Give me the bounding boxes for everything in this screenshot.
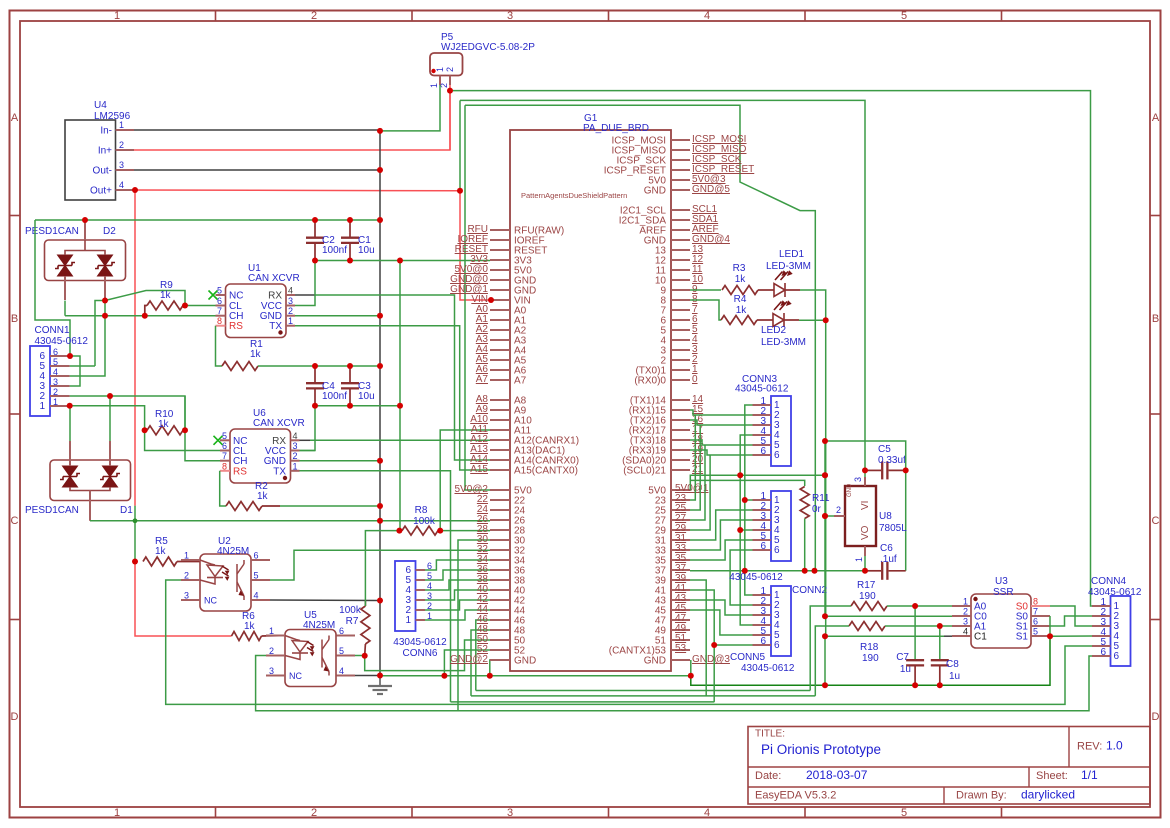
wire red to R6 xyxy=(135,562,232,637)
svg-text:LED-3MM: LED-3MM xyxy=(761,337,806,348)
CONN6 fan wires to G1 xyxy=(425,560,490,570)
svg-text:5: 5 xyxy=(217,286,222,296)
svg-text:1k: 1k xyxy=(160,290,172,301)
svg-text:43045-0612: 43045-0612 xyxy=(729,572,783,583)
svg-text:3: 3 xyxy=(293,441,298,451)
svg-text:B: B xyxy=(11,313,18,325)
svg-text:TITLE:: TITLE: xyxy=(755,729,785,740)
svg-text:REV:: REV: xyxy=(1077,741,1102,753)
wire U6 GND to black xyxy=(300,460,381,462)
voltage regulator U8 7805L xyxy=(845,486,876,546)
3V3 vertical x400 xyxy=(399,261,401,406)
wire U1 RS down to R1 xyxy=(216,326,223,366)
wire GND@3 leg xyxy=(690,660,692,676)
wire CONN2.5 to G1.35 xyxy=(690,540,753,560)
svg-text:100nf: 100nf xyxy=(322,245,347,256)
svg-text:4N25M: 4N25M xyxy=(303,620,335,631)
GND vertical black x380 xyxy=(379,130,381,676)
wire R17 from bus riser xyxy=(810,606,851,691)
svg-text:.1uf: .1uf xyxy=(880,554,897,565)
svg-text:GND@2: GND@2 xyxy=(450,654,488,665)
wire U1 VCC riser xyxy=(295,261,315,306)
svg-text:LED-3MM: LED-3MM xyxy=(766,261,811,272)
svg-text:(RX0)0: (RX0)0 xyxy=(634,376,666,387)
D1 top pins xyxy=(69,441,71,466)
GND bus y675.8 xyxy=(380,675,691,677)
connector CONN6 43045-0612 xyxy=(395,561,416,631)
svg-text:C6: C6 xyxy=(880,543,893,554)
svg-text:3: 3 xyxy=(53,377,58,387)
svg-text:1/1: 1/1 xyxy=(1081,768,1098,782)
svg-text:2: 2 xyxy=(963,607,968,617)
wire R17 to U3.A0 xyxy=(887,605,952,607)
resistor R9 1k xyxy=(147,301,183,310)
wire U3.C0 from LED net xyxy=(825,615,952,617)
svg-text:D1: D1 xyxy=(120,505,133,516)
svg-text:darylicked: darylicked xyxy=(1021,788,1075,802)
svg-text:C8: C8 xyxy=(946,659,959,670)
top loop bus 3 to diagonal (green) xyxy=(465,105,815,571)
svg-text:7: 7 xyxy=(217,306,222,316)
svg-text:0r: 0r xyxy=(812,504,822,515)
svg-text:4: 4 xyxy=(53,367,58,377)
svg-text:GND@5: GND@5 xyxy=(692,184,730,195)
resistor R11 0r (vertical) xyxy=(800,487,809,519)
svg-text:In-: In- xyxy=(100,126,112,137)
svg-text:D: D xyxy=(11,711,19,723)
svg-text:1.0: 1.0 xyxy=(1106,739,1123,753)
svg-text:5: 5 xyxy=(339,646,344,656)
wire G1.18 to CONN3.5 to G1.27 xyxy=(690,440,753,445)
svg-text:4: 4 xyxy=(119,180,124,190)
x825 5V net vertical xyxy=(824,441,826,616)
svg-text:LED2: LED2 xyxy=(761,325,786,336)
3V3 rail y260.5 (green) xyxy=(315,260,490,262)
optocoupler U2 4N25M xyxy=(200,554,251,611)
shield G1 PA_DUE_BRD xyxy=(510,130,671,671)
svg-text:190: 190 xyxy=(862,653,879,664)
svg-text:100nf: 100nf xyxy=(322,391,347,402)
svg-text:1: 1 xyxy=(53,397,58,407)
wire CONN1.5 (green) xyxy=(70,365,95,367)
svg-text:1k: 1k xyxy=(250,349,262,360)
svg-text:1: 1 xyxy=(854,557,864,562)
wire CONN2.3 to G1.33 xyxy=(690,520,753,550)
svg-text:(SCL0)21: (SCL0)21 xyxy=(623,466,666,477)
svg-text:R11: R11 xyxy=(812,493,830,504)
resistor R6 1k xyxy=(232,632,262,641)
svg-text:EasyEDA V5.3.2: EasyEDA V5.3.2 xyxy=(755,790,836,802)
svg-text:5: 5 xyxy=(53,357,58,367)
svg-text:1: 1 xyxy=(288,316,293,326)
svg-text:6: 6 xyxy=(774,640,780,651)
svg-text:53: 53 xyxy=(675,643,687,654)
svg-text:A15(CANTX0): A15(CANTX0) xyxy=(514,466,578,477)
ground xyxy=(379,676,381,687)
wire R6 to U5.1 xyxy=(262,635,286,638)
capacitor C3 10u xyxy=(349,366,351,383)
R9 left elbow xyxy=(145,306,147,316)
resistor R8 100k xyxy=(402,526,438,535)
wire riser x460 (green) xyxy=(459,100,461,190)
svg-text:CONN6: CONN6 xyxy=(402,648,437,659)
wire Out+ (red) xyxy=(134,189,460,192)
svg-text:7: 7 xyxy=(222,451,227,461)
svg-text:TX: TX xyxy=(273,466,286,477)
svg-text:2: 2 xyxy=(311,807,317,819)
wire In- to GND vertical (black) xyxy=(134,129,380,131)
wire G1.30 drop xyxy=(458,540,490,711)
no-connect X on U6 pin5 xyxy=(214,436,223,445)
svg-text:8: 8 xyxy=(222,461,227,471)
resistor R4 1k xyxy=(721,316,757,325)
svg-text:C: C xyxy=(11,515,19,527)
connector CONN2 43045-0612 xyxy=(771,491,791,561)
svg-text:5: 5 xyxy=(901,10,907,22)
svg-text:2: 2 xyxy=(53,387,58,397)
wire G1.15 to CONN3.2 to G1.23 xyxy=(690,410,753,415)
svg-text:U3: U3 xyxy=(995,576,1008,587)
capacitor C7 1u (vertical) xyxy=(914,606,916,661)
bus riser to 5V0@2 (green) xyxy=(465,105,490,490)
svg-text:A: A xyxy=(1152,112,1160,124)
svg-text:3: 3 xyxy=(119,160,124,170)
svg-text:4: 4 xyxy=(963,627,968,637)
svg-text:2: 2 xyxy=(836,505,841,515)
svg-text:1: 1 xyxy=(435,67,445,72)
wire U6 RS down to R2 xyxy=(220,471,226,506)
wire LED1 out xyxy=(785,289,800,291)
wire R2 right xyxy=(262,505,280,507)
rail 37 / R11 / U8 out xyxy=(690,570,865,572)
svg-text:43045-0612: 43045-0612 xyxy=(1088,587,1142,598)
svg-text:1u: 1u xyxy=(949,671,960,682)
svg-text:CONN4: CONN4 xyxy=(1091,576,1126,587)
svg-text:0: 0 xyxy=(692,374,698,385)
svg-text:D: D xyxy=(1152,711,1160,723)
wire Out+ down left branch (red) xyxy=(134,190,136,506)
relay U3 SSR xyxy=(971,594,1031,648)
U8 pin2 stub xyxy=(834,515,845,517)
wire U6 TX down to bus xyxy=(300,471,451,702)
bus y701.9 from U6 TX xyxy=(451,701,715,703)
svg-text:100k: 100k xyxy=(339,605,362,616)
svg-text:4: 4 xyxy=(704,807,710,819)
wire Out- (black) xyxy=(134,169,380,171)
wire U5.4 black to GND xyxy=(355,675,380,677)
svg-text:GND: GND xyxy=(644,186,666,197)
resistor R5 1k xyxy=(143,557,177,566)
capacitor C6 .1uf xyxy=(865,570,881,572)
svg-text:R17: R17 xyxy=(857,580,876,591)
svg-text:1: 1 xyxy=(293,461,298,471)
wire R5 to U2.1 xyxy=(177,561,200,563)
5V0@1 rail xyxy=(690,475,825,490)
junction dots overlay xyxy=(132,187,138,193)
GND rail y520.8 (green) xyxy=(90,520,490,522)
wire G1.52 drop xyxy=(444,650,490,676)
top loop bus 2 to U8 VI (green) xyxy=(460,100,865,470)
svg-text:S1: S1 xyxy=(1016,632,1029,643)
svg-text:VI: VI xyxy=(860,501,871,510)
top loop bus VIN (green) xyxy=(450,91,1093,606)
svg-text:3: 3 xyxy=(288,296,293,306)
wire CONN1.2 to CH net xyxy=(70,396,220,461)
svg-text:1k: 1k xyxy=(155,546,167,557)
svg-text:LED1: LED1 xyxy=(779,249,804,260)
svg-text:3: 3 xyxy=(853,477,863,482)
resistor R10 1k xyxy=(147,426,183,435)
svg-text:Pi Orionis Prototype: Pi Orionis Prototype xyxy=(761,742,881,757)
svg-text:2: 2 xyxy=(269,646,274,656)
svg-text:1k: 1k xyxy=(158,419,170,430)
CANL rail y315.7 (green) xyxy=(65,315,216,317)
wire U3.C1 row xyxy=(824,636,826,685)
svg-text:WJ2EDGVC-5.08-2P: WJ2EDGVC-5.08-2P xyxy=(441,42,535,53)
transceiver U1 CAN XCVR xyxy=(226,284,287,338)
svg-text:5: 5 xyxy=(254,571,259,581)
wire G1.45 to CONN5.5 xyxy=(690,610,753,635)
wire G1.19 to CONN3.6 to G1.29 xyxy=(690,450,753,455)
svg-text:GND: GND xyxy=(847,483,853,497)
wire R18 from bus riser xyxy=(815,626,849,696)
svg-text:5: 5 xyxy=(901,807,907,819)
svg-text:6: 6 xyxy=(774,545,780,556)
dark green bus y685.2 xyxy=(691,636,1050,685)
wire bus to CONN5.6 riser xyxy=(713,645,715,702)
svg-text:NC: NC xyxy=(229,291,243,302)
wire U3.7 to junction xyxy=(1049,616,1051,636)
svg-text:LM2596: LM2596 xyxy=(94,111,131,122)
wire CONN1.4 (green) xyxy=(70,316,105,376)
svg-text:PatternAgentsDueShieldPattern: PatternAgentsDueShieldPattern xyxy=(521,191,627,200)
wire U3.8 to CONN4.3 xyxy=(1050,606,1092,626)
wire D2 right pin junctions xyxy=(104,301,106,316)
svg-text:0.33uf: 0.33uf xyxy=(878,455,906,466)
svg-text:2: 2 xyxy=(184,571,189,581)
svg-text:1k: 1k xyxy=(244,621,256,632)
resistor R2 1k xyxy=(226,502,262,511)
wire to D1 right pin xyxy=(109,396,111,441)
svg-text:6: 6 xyxy=(217,296,222,306)
wire pin9 to R3 xyxy=(690,289,721,291)
wire CONN3.4 / 5V0 rail / CONN2.4 / CONN5.4 xyxy=(740,435,752,625)
svg-text:1: 1 xyxy=(39,401,45,412)
svg-text:2: 2 xyxy=(445,67,455,72)
TVS array D2 PESD1CAN xyxy=(45,240,126,281)
wire x906 down xyxy=(905,470,907,570)
svg-text:6: 6 xyxy=(339,626,344,636)
svg-text:NC: NC xyxy=(204,596,217,606)
svg-text:1: 1 xyxy=(429,83,439,88)
svg-text:43045-0612: 43045-0612 xyxy=(741,663,795,674)
GND rail y220 (green) xyxy=(35,219,380,221)
svg-text:NC: NC xyxy=(289,671,302,681)
svg-text:1: 1 xyxy=(405,615,411,626)
wire R18 to U3.A1 xyxy=(885,625,952,627)
resistor R7 100k (vertical) xyxy=(361,606,370,644)
D1 center pin to GND rail xyxy=(89,491,91,521)
svg-text:6: 6 xyxy=(774,450,780,461)
svg-text:100k: 100k xyxy=(413,516,436,527)
capacitor C1 10u xyxy=(349,220,351,238)
resistor R3 1k xyxy=(722,286,758,295)
svg-text:In+: In+ xyxy=(98,146,112,157)
resistor R1 1k xyxy=(222,362,258,371)
diagonal wire D2 to R9 right (green) xyxy=(105,291,185,306)
svg-text:R3: R3 xyxy=(733,263,746,274)
wire C5 right down to C6 xyxy=(825,441,906,470)
svg-text:PA_DUE_BRD: PA_DUE_BRD xyxy=(583,123,649,134)
U8 pin1 stub xyxy=(864,546,866,556)
svg-text:C1: C1 xyxy=(974,632,987,643)
no-connect X on U1 pin5 xyxy=(209,291,218,300)
connector CONN3 43045-0612 xyxy=(771,396,791,466)
svg-text:3: 3 xyxy=(184,591,189,601)
wire U6 VCC xyxy=(300,450,316,452)
svg-text:GND: GND xyxy=(644,656,666,667)
svg-text:D2: D2 xyxy=(103,226,116,237)
svg-text:CONN2: CONN2 xyxy=(792,585,827,596)
U6 VCC riser x315 xyxy=(295,406,315,451)
wire U2.2 to bottom bus xyxy=(166,580,1092,704)
svg-text:R18: R18 xyxy=(860,642,879,653)
svg-text:10u: 10u xyxy=(358,391,375,402)
svg-text:A7: A7 xyxy=(476,374,489,385)
svg-text:VO: VO xyxy=(860,525,871,540)
wire U1 GND to black xyxy=(295,315,380,317)
svg-text:3: 3 xyxy=(507,807,513,819)
svg-text:3: 3 xyxy=(963,617,968,627)
svg-text:4: 4 xyxy=(704,10,710,22)
svg-text:GND: GND xyxy=(514,656,536,667)
svg-text:CONN1: CONN1 xyxy=(35,325,70,336)
svg-text:43045-0612: 43045-0612 xyxy=(35,336,89,347)
wire D1 left pin up to CONN1.1 xyxy=(69,406,71,441)
svg-text:Out+: Out+ xyxy=(90,186,112,197)
LED2 LED-3MM xyxy=(757,319,773,321)
transceiver U6 CAN XCVR xyxy=(230,429,291,483)
wire U3.5 / CONN4.4 xyxy=(1050,635,1092,637)
wire LED2 out xyxy=(784,319,799,321)
capacitor C8 1u (vertical) xyxy=(939,626,941,661)
svg-text:6: 6 xyxy=(53,347,58,357)
svg-text:1: 1 xyxy=(114,10,120,22)
resistor R18 190 xyxy=(849,622,885,631)
svg-text:1: 1 xyxy=(119,120,124,130)
wire CONN2.2 to G1.31 xyxy=(690,510,753,540)
connector CONN1 43045-0612 xyxy=(30,346,50,416)
wire R8 left to R7 riser xyxy=(365,531,399,606)
svg-text:7805L: 7805L xyxy=(879,523,907,534)
left vertical to CONN1.6 (green) xyxy=(35,220,70,356)
LED net vertical x825.7 xyxy=(825,320,827,636)
capacitor C5 0.33uf xyxy=(865,469,881,471)
svg-text:1: 1 xyxy=(114,807,120,819)
wire U1 RX to A14 riser xyxy=(295,294,315,296)
wire GND@2 leg xyxy=(489,660,491,676)
svg-text:R8: R8 xyxy=(415,505,428,516)
svg-text:2: 2 xyxy=(288,306,293,316)
svg-text:Sheet:: Sheet: xyxy=(1036,770,1068,782)
svg-text:2: 2 xyxy=(119,140,124,150)
svg-text:6: 6 xyxy=(760,636,766,647)
connector CONN4 43045-0612 xyxy=(1111,596,1131,666)
svg-text:6: 6 xyxy=(760,446,766,457)
wire U2.4 black to GND xyxy=(270,599,380,602)
svg-text:CAN XCVR: CAN XCVR xyxy=(248,273,300,284)
svg-text:R4: R4 xyxy=(734,294,747,305)
svg-text:8: 8 xyxy=(1033,597,1038,607)
svg-text:21: 21 xyxy=(692,464,704,475)
svg-text:4: 4 xyxy=(254,591,259,601)
wire U5.5 to R7 junction xyxy=(355,655,365,657)
svg-text:1k: 1k xyxy=(257,491,269,502)
svg-text:4: 4 xyxy=(293,431,298,441)
svg-text:2: 2 xyxy=(293,451,298,461)
D2 internal diodes xyxy=(58,255,73,266)
svg-text:6: 6 xyxy=(1114,651,1120,662)
svg-text:43045-0612: 43045-0612 xyxy=(735,384,789,395)
svg-text:A7: A7 xyxy=(514,376,527,387)
svg-text:A: A xyxy=(11,112,19,124)
wire R10 left to CL xyxy=(145,430,220,450)
svg-text:6: 6 xyxy=(1033,617,1038,627)
svg-text:PESD1CAN: PESD1CAN xyxy=(25,226,79,237)
capacitor C2 100nf xyxy=(314,220,316,238)
svg-text:CAN XCVR: CAN XCVR xyxy=(253,418,305,429)
wire P5 pin2 red down to VIN xyxy=(449,85,451,150)
wire R7 net to G1 pin50 xyxy=(365,640,490,671)
wire VIN red from riser xyxy=(460,191,491,300)
svg-text:U8: U8 xyxy=(879,511,892,522)
G1 right pins xyxy=(671,139,690,141)
svg-text:CONN5: CONN5 xyxy=(730,652,765,663)
wire G1.41 to CONN5.6 xyxy=(690,590,753,645)
wire pin8 to R4 xyxy=(690,300,721,320)
svg-text:4: 4 xyxy=(339,666,344,676)
svg-text:8: 8 xyxy=(217,316,222,326)
capacitor C4 100nf xyxy=(314,366,316,383)
wire U3.6 to CONN4.2 xyxy=(1050,616,1092,626)
wire U5.2 to bottom bus xyxy=(256,656,1092,711)
svg-text:PESD1CAN: PESD1CAN xyxy=(25,505,79,516)
svg-text:C7: C7 xyxy=(896,652,909,663)
svg-text:10u: 10u xyxy=(358,245,375,256)
svg-text:5: 5 xyxy=(1033,627,1038,637)
svg-text:GND@3: GND@3 xyxy=(692,654,730,665)
svg-text:3: 3 xyxy=(507,10,513,22)
svg-text:2018-03-07: 2018-03-07 xyxy=(806,768,868,782)
wire R9 to U1 CL xyxy=(185,305,220,307)
wire CONN3.1 / CONN2.1 / rail37 / CONN5.1 xyxy=(745,405,753,595)
svg-text:6: 6 xyxy=(222,441,227,451)
svg-text:1k: 1k xyxy=(735,274,747,285)
svg-text:4N25M: 4N25M xyxy=(217,546,249,557)
svg-text:5: 5 xyxy=(222,431,227,441)
R1 right to GND rail y366 xyxy=(258,365,380,367)
VCC rail y405.8 (green) xyxy=(315,405,400,407)
svg-text:Out-: Out- xyxy=(93,166,112,177)
wire In+ to P5 pin2 (red) xyxy=(134,91,450,150)
wire CONN1.1 to R10 (green) xyxy=(70,406,145,431)
svg-text:C: C xyxy=(1152,515,1160,527)
connector P5 WJ2EDGVC-5.08-2P xyxy=(430,53,463,76)
title block xyxy=(748,727,1150,805)
wire CONN1.6 to CONN1.3 (green) xyxy=(70,356,80,386)
svg-text:43045-0612: 43045-0612 xyxy=(393,637,447,648)
wire R8 right riser to A11 xyxy=(440,430,490,531)
